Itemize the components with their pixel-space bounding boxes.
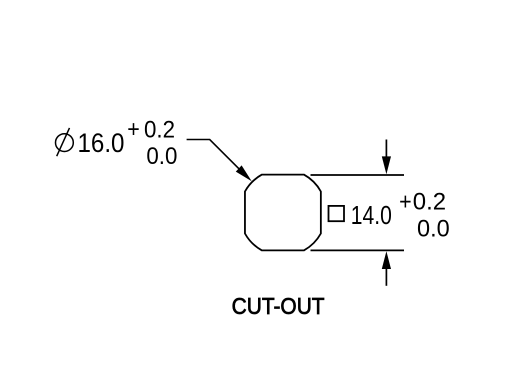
svg-text:0.2: 0.2: [413, 189, 446, 216]
svg-text:0.2: 0.2: [144, 117, 175, 144]
svg-text:16.0: 16.0: [78, 128, 125, 158]
svg-text:0.0: 0.0: [146, 143, 177, 170]
svg-text:0.0: 0.0: [417, 216, 450, 243]
svg-text:+: +: [127, 116, 140, 143]
svg-text:14.0: 14.0: [351, 202, 392, 230]
svg-text:+: +: [399, 189, 412, 216]
svg-text:CUT-OUT: CUT-OUT: [232, 293, 325, 319]
